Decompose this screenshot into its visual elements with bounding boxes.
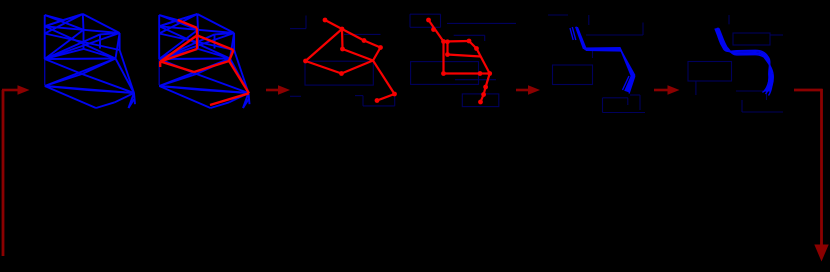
panel 1: original graph drawing (blue)	[45, 14, 135, 108]
panel 6: smoothed bundled edges (blue strands)	[715, 28, 773, 96]
arrow panel 4 to panel 5	[516, 85, 540, 95]
panel 3: coarsened skeleton graph (red, with vertex dots)	[303, 18, 397, 103]
panel 2: graph with highlighted subgraph (blue + red path)	[159, 14, 249, 108]
panel 5: bundled edges, piecewise-linear (blue strands)	[570, 27, 635, 94]
panel 4: further coarsened graph (red, with vertex dots)	[426, 18, 492, 105]
arrow panel 5 to panel 6	[654, 85, 680, 95]
exit arrow down, bottom right	[814, 89, 828, 262]
exit line from panel 6 (dark red)	[794, 89, 823, 92]
entry arrow into panel 1	[2, 85, 30, 95]
panel 2 red highlighted path	[160, 20, 249, 105]
feedback line, left edge (dark red)	[2, 90, 5, 256]
arrow panel 2 to panel 3	[266, 85, 290, 95]
background level-frame boxes (dark navy)	[45, 14, 783, 112]
